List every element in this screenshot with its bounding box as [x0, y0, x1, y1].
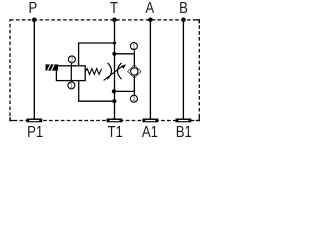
wire B line: [182, 20, 184, 119]
node B: [181, 18, 186, 23]
stub port 1 check valve: [133, 49, 135, 53]
spring (valve return): [85, 69, 101, 75]
node at left loop bottom tee: [112, 99, 116, 103]
node at check loop bottom tee: [112, 89, 116, 93]
port P1 symbol: [26, 119, 42, 123]
boundary corner dash bottom-right: [196, 117, 200, 121]
wire left loop top: [79, 43, 115, 66]
svg-text:P1: P1: [27, 124, 43, 140]
stub port 2 check valve: [133, 91, 135, 95]
svg-text:1: 1: [70, 83, 73, 90]
node P: [32, 18, 37, 23]
svg-text:B: B: [179, 0, 188, 17]
node A: [148, 18, 153, 23]
solenoid actuator: [46, 64, 59, 70]
port 1 label of check valve: [130, 43, 137, 51]
svg-text:A1: A1: [142, 124, 158, 140]
boundary corner dash bottom-left: [10, 117, 14, 121]
line through diamond: [133, 65, 135, 78]
node T: [112, 18, 117, 23]
svg-text:A: A: [145, 0, 154, 17]
port 2 label of check valve: [130, 95, 137, 103]
svg-text:1: 1: [133, 44, 136, 51]
svg-text:2: 2: [71, 57, 74, 64]
svg-text:2: 2: [133, 97, 136, 104]
stub port 1 solenoid valve: [70, 81, 72, 83]
manifold boundary (dashed): [10, 20, 199, 121]
solenoid valve body: [56, 66, 85, 81]
node tee top: [113, 42, 116, 45]
stub port 2 solenoid valve: [71, 62, 73, 66]
wire T main line: [114, 20, 116, 119]
svg-text:T: T: [110, 0, 118, 17]
wire check valve branch: [133, 54, 135, 92]
wire P line: [33, 20, 35, 119]
port 1 label of solenoid valve: [68, 82, 75, 90]
boundary corner dash top-right: [196, 20, 200, 24]
port T1 symbol: [107, 119, 123, 123]
check valve ball: [131, 68, 138, 75]
svg-text:B1: B1: [176, 124, 192, 140]
svg-text:P: P: [29, 0, 38, 17]
port A1 symbol: [143, 119, 159, 123]
port 2 label of solenoid valve: [68, 56, 75, 64]
wire left loop bottom: [79, 81, 115, 102]
wire check loop bottom: [115, 90, 135, 92]
port B1 symbol: [176, 119, 192, 123]
throttle arcs (adjustable orifice): [107, 63, 111, 79]
wire A line: [149, 20, 151, 119]
check valve cartridge diamond: [128, 65, 141, 78]
svg-text:T1: T1: [108, 124, 123, 140]
adjustment arrow: [104, 64, 127, 80]
node at check loop top tee: [112, 52, 116, 56]
wire check loop top: [115, 53, 135, 55]
